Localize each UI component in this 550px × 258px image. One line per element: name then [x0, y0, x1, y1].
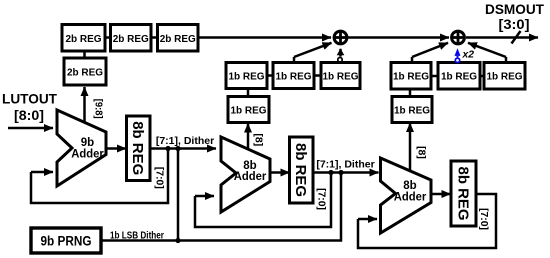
- svg-text:1b LSB Dither: 1b LSB Dither: [110, 229, 164, 241]
- svg-text:2b REG: 2b REG: [113, 34, 149, 45]
- svg-text:[9:8]: [9:8]: [92, 99, 104, 119]
- svg-text:x2: x2: [462, 48, 475, 60]
- svg-text:2b REG: 2b REG: [160, 34, 196, 45]
- svg-text:1b REG: 1b REG: [322, 71, 358, 82]
- svg-text:1b REG: 1b REG: [230, 105, 266, 116]
- svg-text:1b REG: 1b REG: [228, 71, 264, 82]
- svg-text:[8]: [8]: [252, 133, 264, 146]
- svg-text:9b: 9b: [81, 137, 94, 149]
- svg-text:[7:1], Dither: [7:1], Dither: [156, 135, 214, 147]
- svg-text:8b REG: 8b REG: [129, 121, 146, 175]
- svg-text:1b REG: 1b REG: [441, 72, 477, 83]
- svg-text:1b REG: 1b REG: [394, 105, 430, 116]
- svg-text:Adder: Adder: [394, 191, 427, 203]
- svg-text:[8:0]: [8:0]: [14, 108, 44, 123]
- svg-text:2b REG: 2b REG: [67, 68, 103, 79]
- svg-text:1b REG: 1b REG: [486, 72, 522, 83]
- svg-text:[7:0]: [7:0]: [478, 208, 490, 230]
- svg-text:[7:1], Dither: [7:1], Dither: [316, 158, 374, 170]
- svg-text:9b PRNG: 9b PRNG: [41, 233, 92, 248]
- svg-text:1b REG: 1b REG: [275, 71, 311, 82]
- svg-text:2b REG: 2b REG: [65, 34, 101, 45]
- svg-text:[7:0]: [7:0]: [154, 167, 166, 189]
- svg-text:DSMOUT: DSMOUT: [485, 1, 544, 17]
- svg-text:[3:0]: [3:0]: [499, 17, 530, 32]
- svg-text:8b: 8b: [403, 180, 416, 192]
- svg-text:8b: 8b: [243, 160, 256, 172]
- svg-text:Adder: Adder: [71, 148, 104, 160]
- svg-text:[8]: [8]: [415, 146, 427, 159]
- svg-text:1b REG: 1b REG: [393, 72, 429, 83]
- svg-text:[7:0]: [7:0]: [315, 188, 327, 210]
- svg-text:8b REG: 8b REG: [454, 167, 471, 221]
- svg-text:Adder: Adder: [234, 171, 267, 183]
- svg-text:LUTOUT: LUTOUT: [2, 91, 57, 107]
- svg-text:8b REG: 8b REG: [292, 143, 309, 197]
